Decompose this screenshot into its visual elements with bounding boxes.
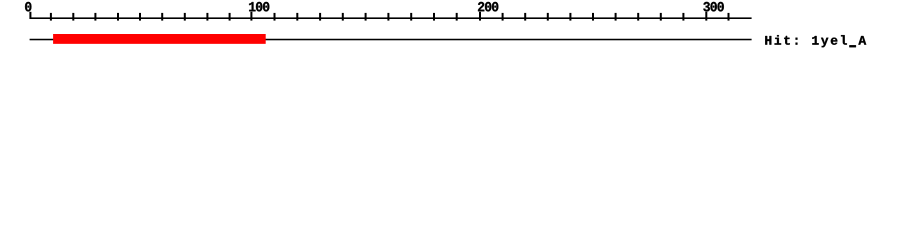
- ruler major tick 0: [29, 12, 31, 19]
- ruler minor ticks 210-290: [502, 13, 685, 21]
- ruler baseline: [30, 17, 752, 19]
- hit name label: [765, 35, 866, 47]
- ruler major tick 100: [250, 12, 252, 21]
- ruler major tick 200: [479, 12, 481, 21]
- ruler major tick 300: [705, 12, 707, 21]
- hit bar (red): [53, 34, 266, 44]
- ruler minor ticks 110-190: [274, 13, 458, 21]
- ruler label 300: [703, 2, 723, 12]
- ruler label 100: [249, 2, 269, 12]
- alignment line: [30, 39, 752, 41]
- ruler minor ticks 10-90: [50, 13, 231, 21]
- ruler label 0: [25, 2, 31, 12]
- ruler label 200: [478, 2, 498, 12]
- background: [0, 0, 900, 60]
- ruler minor tick 310: [728, 13, 730, 21]
